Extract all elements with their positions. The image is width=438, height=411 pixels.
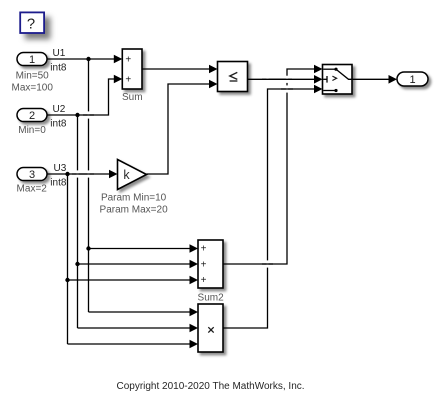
svg-text:+: + (201, 244, 207, 255)
svg-text:2: 2 (29, 110, 35, 122)
svg-text:U1: U1 (53, 48, 66, 59)
svg-text:+: + (201, 275, 207, 286)
svg-text:+: + (125, 75, 131, 86)
svg-text:Max=2: Max=2 (17, 184, 48, 195)
svg-text:Min=50: Min=50 (16, 71, 50, 82)
svg-text:k: k (123, 168, 130, 182)
svg-text:int8: int8 (50, 119, 67, 130)
svg-text:1: 1 (29, 54, 35, 66)
svg-text:int8: int8 (50, 178, 67, 189)
svg-text:Min=0: Min=0 (18, 125, 46, 136)
svg-text:Param Max=20: Param Max=20 (100, 205, 169, 216)
svg-text:int8: int8 (50, 63, 67, 74)
svg-text:Sum: Sum (122, 92, 143, 103)
svg-text:+: + (125, 55, 131, 66)
svg-text:Max=100: Max=100 (11, 82, 53, 93)
svg-text:Sum2: Sum2 (198, 292, 225, 303)
svg-text:3: 3 (29, 169, 35, 181)
svg-text:+: + (201, 259, 207, 270)
svg-text:U2: U2 (53, 104, 66, 115)
svg-text:U3: U3 (54, 163, 67, 174)
svg-text:1: 1 (409, 74, 415, 86)
svg-text:Param Min=10: Param Min=10 (101, 193, 167, 204)
svg-text:?: ? (27, 17, 35, 33)
svg-text:Copyright 2010-2020 The MathWo: Copyright 2010-2020 The MathWorks, Inc. (116, 381, 304, 392)
